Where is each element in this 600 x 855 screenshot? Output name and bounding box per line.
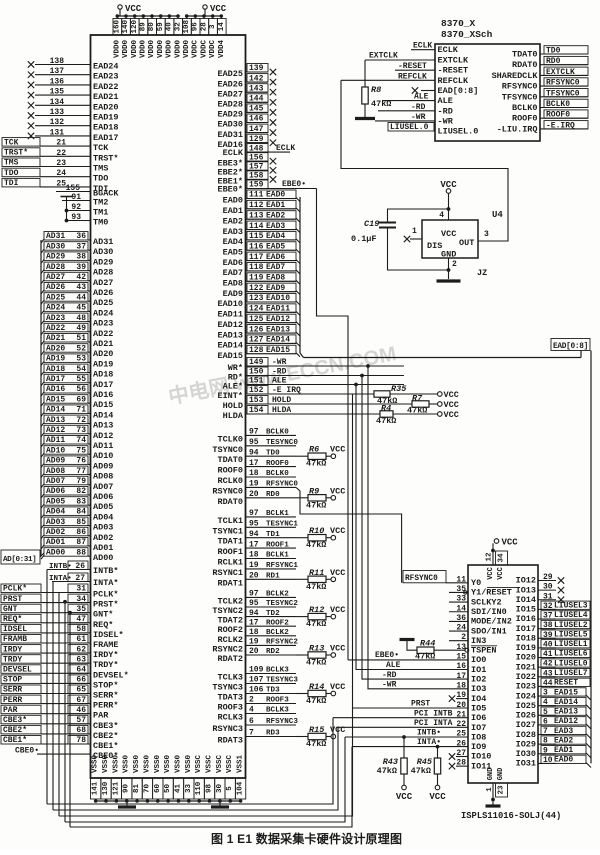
U3 left pin 13 TSPEN	[456, 643, 496, 656]
svg-text:-LIU.IRQ: -LIU.IRQ	[497, 124, 538, 134]
wire bottom run to ISP pin INTA*	[70, 747, 352, 827]
svg-text:EAD14: EAD14	[266, 336, 290, 345]
svg-text:TD0: TD0	[266, 449, 280, 457]
bus EAD vertical at right of U1	[299, 197, 301, 353]
svg-text:47kΩ: 47kΩ	[306, 658, 326, 668]
svg-text:EAD4: EAD4	[266, 232, 285, 241]
svg-text:160: 160	[113, 19, 121, 33]
svg-text:AD01: AD01	[46, 538, 65, 547]
svg-text:ROOF1: ROOF1	[217, 547, 243, 557]
svg-text:LIUSEL5: LIUSEL5	[554, 630, 588, 639]
svg-text:Y0: Y0	[471, 578, 481, 588]
svg-text:PCLK*: PCLK*	[93, 590, 119, 600]
svg-text:51: 51	[76, 334, 86, 343]
U1 left pin 24 TDO with net label TDO	[2, 168, 108, 184]
svg-text:4: 4	[439, 211, 444, 220]
svg-text:TMS: TMS	[4, 159, 19, 168]
svg-text:R9: R9	[309, 486, 319, 496]
svg-text:140: 140	[122, 19, 130, 33]
svg-text:FRAMB: FRAMB	[3, 635, 27, 644]
wire R14 to VCC	[326, 693, 331, 695]
svg-text:AD[0:31]: AD[0:31]	[3, 556, 36, 564]
svg-text:24: 24	[56, 169, 66, 178]
svg-text:R11: R11	[309, 568, 324, 578]
svg-text:TDI: TDI	[4, 179, 19, 188]
svg-text:45: 45	[76, 304, 86, 313]
svg-text:47kΩ: 47kΩ	[306, 582, 326, 592]
svg-text:IO12: IO12	[516, 576, 536, 586]
U3 left pin 22 IO7	[456, 720, 486, 733]
svg-text:110: 110	[195, 781, 203, 795]
svg-text:GNT: GNT	[3, 605, 18, 614]
U1 right pin 113 EAD2	[223, 211, 300, 227]
svg-text:EAD[0:8]: EAD[0:8]	[553, 343, 588, 351]
svg-text:AD25: AD25	[93, 298, 113, 308]
svg-text:2: 2	[249, 696, 254, 705]
net label PRST at U3 IO5 with wire	[353, 700, 469, 709]
svg-text:81: 81	[133, 784, 141, 794]
svg-text:6: 6	[249, 717, 254, 726]
U1 left pin 138 EAD24	[28, 57, 119, 72]
svg-text:7: 7	[249, 729, 254, 738]
svg-text:EAD12: EAD12	[554, 717, 578, 726]
svg-text:VSS0: VSS0	[143, 755, 151, 774]
svg-text:EAD13: EAD13	[266, 325, 290, 334]
svg-text:18: 18	[249, 551, 259, 560]
svg-text:C19: C19	[364, 219, 379, 229]
wire R35 to VCC	[390, 393, 438, 395]
svg-text:OUT: OUT	[459, 238, 474, 248]
svg-text:67: 67	[76, 696, 86, 705]
svg-text:BCLK3: BCLK3	[266, 667, 289, 675]
svg-text:149: 149	[249, 358, 264, 367]
svg-text:DEVSEL: DEVSEL	[3, 666, 32, 675]
svg-text:AD00: AD00	[93, 553, 113, 563]
wire R14 net	[296, 693, 308, 695]
svg-text:60: 60	[154, 784, 162, 794]
svg-text:151: 151	[249, 377, 264, 386]
svg-text:AD20: AD20	[93, 349, 113, 359]
U1 left pin 46 PAR with net label PAR	[1, 705, 109, 721]
svg-text:124: 124	[249, 305, 264, 314]
svg-text:120: 120	[131, 19, 139, 33]
svg-text:VCC: VCC	[396, 792, 413, 802]
svg-text:EINT*: EINT*	[217, 391, 243, 401]
power symbol VCC at U4	[439, 180, 457, 220]
svg-text:IO19: IO19	[516, 643, 536, 653]
U1 right pin 143 EAD27	[217, 84, 276, 100]
svg-text:IO14: IO14	[516, 595, 536, 605]
U2 pin label REFCLK with wire	[341, 72, 435, 81]
wire INTB* vertical to bottom	[46, 570, 48, 805]
wire PCLK vertical to bottom	[58, 593, 60, 817]
U1 left pin 73 AD12	[41, 425, 113, 441]
svg-text:EAD[0:8]: EAD[0:8]	[438, 86, 479, 96]
svg-text:TD2: TD2	[266, 610, 280, 618]
wire EBE0* to right with label	[268, 180, 317, 189]
resistor R6	[306, 445, 326, 469]
svg-text:142: 142	[249, 74, 264, 83]
svg-text:EAD5: EAD5	[223, 247, 243, 257]
svg-text:ALE: ALE	[386, 661, 401, 670]
svg-text:IO17: IO17	[516, 624, 536, 634]
U1 left pin 67 PERR* with net label PERR	[1, 695, 119, 711]
U3 right pin 29 IO12 no-connect	[516, 573, 565, 586]
svg-text:8370_XSch: 8370_XSch	[441, 29, 493, 40]
wire R6 to VCC	[326, 455, 331, 457]
svg-text:EAD1: EAD1	[554, 746, 573, 755]
svg-text:-E.IRQ: -E.IRQ	[546, 121, 575, 130]
svg-text:TDAT1: TDAT1	[217, 537, 243, 547]
svg-text:TRST*: TRST*	[93, 153, 119, 163]
wire ALE vertical to ISP	[356, 385, 468, 670]
U3 right pin 31 IO14 no-connect	[516, 592, 565, 605]
IC U2 pin ECLK	[438, 45, 459, 55]
svg-text:95: 95	[249, 438, 259, 447]
svg-text:36: 36	[76, 232, 86, 241]
svg-text:AD15: AD15	[46, 395, 65, 404]
svg-text:R4: R4	[381, 404, 391, 414]
svg-text:135: 135	[50, 88, 65, 97]
svg-text:47kΩ: 47kΩ	[306, 540, 326, 550]
U3 top pin 34 VCC	[496, 551, 508, 565]
svg-text:AD03: AD03	[93, 523, 113, 533]
svg-text:IO23: IO23	[516, 682, 536, 692]
svg-text:ECLK: ECLK	[276, 144, 295, 153]
wire R10 net	[296, 537, 308, 539]
svg-text:118: 118	[249, 263, 264, 272]
ground symbol below U3	[486, 797, 501, 806]
svg-text:RSYNC3: RSYNC3	[212, 724, 243, 734]
svg-text:38: 38	[76, 253, 86, 262]
svg-text:PAR: PAR	[3, 706, 18, 715]
svg-text:TESYNC3: TESYNC3	[266, 677, 298, 685]
wire R9 to VCC	[326, 497, 331, 499]
ground rail under U1	[94, 799, 243, 803]
U1 left pin 92 TM1	[67, 203, 109, 218]
svg-text:LIUSEL.0: LIUSEL.0	[390, 123, 429, 132]
U3 left pin 28 IO11	[449, 759, 492, 772]
svg-text:83: 83	[76, 497, 86, 506]
svg-text:AD09: AD09	[93, 461, 113, 471]
wire R9 net	[296, 497, 308, 499]
svg-text:47kΩ: 47kΩ	[306, 739, 326, 749]
svg-text:RCLK0: RCLK0	[217, 476, 243, 486]
svg-text:AD07: AD07	[93, 482, 113, 492]
U1 right pin 156 EBE3*	[217, 153, 276, 169]
svg-text:AD29: AD29	[46, 253, 65, 262]
U3 right pin 43 IO22 net LIUSEL7	[516, 669, 590, 683]
svg-text:REQ*: REQ*	[3, 615, 22, 624]
svg-text:PCLK*: PCLK*	[3, 585, 27, 594]
svg-text:AD04: AD04	[93, 512, 113, 522]
svg-text:82: 82	[76, 487, 86, 496]
svg-text:R44: R44	[420, 639, 435, 649]
U1 left pin 52 AD20	[41, 344, 113, 360]
svg-text:EAD15: EAD15	[554, 688, 578, 697]
U1 left pin 134 EAD20	[28, 98, 119, 113]
svg-text:AD11: AD11	[93, 441, 113, 451]
svg-text:EAD26: EAD26	[217, 79, 243, 89]
svg-text:PERR: PERR	[3, 696, 22, 705]
svg-text:77: 77	[76, 467, 86, 476]
svg-text:59: 59	[157, 22, 165, 32]
svg-text:116: 116	[249, 242, 264, 251]
svg-text:EAD7: EAD7	[223, 268, 243, 278]
svg-text:CBE3*: CBE3*	[93, 721, 119, 731]
power symbol VCC at R10	[330, 526, 345, 540]
svg-text:EAD10: EAD10	[266, 294, 290, 303]
svg-text:34: 34	[76, 595, 86, 604]
U1 left pin 42 AD27	[41, 272, 113, 288]
wire C19 bottom to GND	[388, 228, 451, 272]
svg-text:AD05: AD05	[46, 497, 65, 506]
U1 right pin 112 EAD1	[223, 200, 300, 216]
U1 right pin 122 EAD9	[223, 283, 300, 299]
svg-text:GNT*: GNT*	[93, 610, 113, 620]
svg-text:138: 138	[50, 57, 65, 66]
U1 left pin 57 CBE3* with net label CBE3*	[1, 715, 119, 731]
svg-text:19: 19	[249, 480, 259, 489]
wire PRST vertical to bottom	[63, 600, 67, 822]
svg-text:IO30: IO30	[516, 749, 536, 759]
svg-text:156: 156	[249, 153, 264, 162]
IC U2 pin REFCLK	[438, 76, 470, 86]
U1 left pin 69 AD15	[41, 395, 113, 411]
svg-text:39: 39	[76, 263, 86, 272]
svg-text:AD16: AD16	[93, 390, 113, 400]
svg-text:AD08: AD08	[46, 467, 65, 476]
U1 left pin 137 EAD23	[28, 67, 119, 82]
svg-text:SDO/IN1: SDO/IN1	[471, 626, 507, 636]
svg-text:84: 84	[76, 508, 86, 517]
U2 pin label ALE with wire	[382, 93, 435, 102]
svg-text:IO15: IO15	[516, 605, 536, 615]
svg-text:40: 40	[166, 22, 174, 32]
svg-text:VCC: VCC	[330, 725, 345, 735]
svg-text:AD30: AD30	[93, 247, 113, 257]
svg-text:ROOF2: ROOF2	[266, 619, 289, 627]
U1 left pin 86 AD02	[41, 527, 113, 543]
U3 right pin 30 IO13 no-connect	[516, 583, 565, 596]
bus EAD vertical right edge	[590, 351, 592, 764]
svg-text:AD06: AD06	[46, 487, 65, 496]
svg-text:ECLK: ECLK	[413, 42, 432, 51]
wire HOLD net to resistor	[268, 403, 412, 405]
bus AD vertical line	[40, 240, 42, 557]
wire bottom run to ISP pin PCI INTB	[47, 718, 333, 804]
U1 right pin 17 ROOF0 net ROOF0	[217, 459, 296, 476]
svg-text:69: 69	[76, 395, 86, 404]
svg-text:VSS0: VSS0	[133, 755, 141, 774]
U1 left pin 77 AD08	[41, 466, 113, 482]
svg-text:TSYNC1: TSYNC1	[212, 526, 243, 536]
svg-text:EAD2: EAD2	[554, 736, 573, 745]
svg-text:18: 18	[456, 681, 466, 690]
wire INTA* vertical to bottom	[52, 582, 54, 811]
U1 left pin 62 IRDY* with net label IRDY	[1, 645, 119, 661]
U1 right pin 111 EAD0	[223, 190, 300, 206]
svg-text:126: 126	[249, 325, 264, 334]
svg-text:VDD0: VDD0	[166, 40, 174, 59]
VCC rail top-left	[116, 14, 180, 18]
U3 top VCC pin names	[487, 567, 505, 580]
svg-text:49: 49	[76, 324, 86, 333]
U2 pin -LIU.IRQ net -E.IRQ	[497, 121, 588, 135]
wire R11 net	[296, 578, 308, 580]
svg-text:TD1: TD1	[266, 531, 280, 539]
svg-text:EAD14: EAD14	[554, 698, 578, 707]
U2 pin label LIUSEL.0 boxed	[388, 123, 435, 133]
svg-text:EAD14: EAD14	[217, 341, 243, 351]
svg-text:VCC: VCC	[497, 567, 505, 580]
IC U2 pin -RESET	[438, 66, 469, 76]
U1 right pin 20 RDAT0 net RD0	[217, 490, 296, 507]
svg-text:EAD2: EAD2	[223, 216, 243, 226]
svg-text:CBE1*: CBE1*	[93, 741, 119, 751]
U1 left pin 37 AD30	[41, 242, 113, 258]
svg-text:AD28: AD28	[46, 263, 65, 272]
svg-text:AD02: AD02	[46, 528, 65, 537]
U1 right pin 119 EAD8	[223, 273, 300, 289]
U3 left pin 16 IO1	[456, 662, 486, 675]
svg-text:EAD0: EAD0	[223, 196, 243, 206]
U1 left pin 71 AD14	[41, 405, 113, 421]
svg-text:AD19: AD19	[46, 355, 65, 364]
svg-text:IO18: IO18	[516, 633, 536, 643]
svg-text:AD13: AD13	[93, 421, 113, 431]
U3 left pin 27 IO10	[449, 749, 492, 762]
resistor R15	[306, 725, 326, 749]
svg-text:PCI INTA: PCI INTA	[414, 719, 453, 728]
svg-text:112: 112	[249, 201, 264, 210]
svg-text:EAD19: EAD19	[93, 113, 119, 123]
wire R15 net	[296, 736, 308, 738]
U2 pin SHAREDCLK net EXTCLK	[492, 67, 588, 81]
svg-text:62: 62	[76, 645, 86, 654]
U1 right pin 95 TSYNC2 net TESYNC2	[212, 599, 298, 616]
svg-text:VDDC: VDDC	[192, 40, 200, 59]
U3 left pin 17 IO2	[456, 672, 486, 685]
svg-text:EAD2: EAD2	[266, 211, 285, 220]
U1 left pin 49 AD22	[41, 323, 113, 339]
svg-text:RCLK3: RCLK3	[217, 713, 243, 723]
svg-text:TDAT0: TDAT0	[512, 50, 538, 60]
svg-text:EAD9: EAD9	[266, 284, 285, 293]
U1 right pin 7 RDAT3 net RD3	[217, 729, 296, 746]
U1 right pin 114 EAD3	[223, 221, 300, 237]
svg-text:97: 97	[249, 590, 259, 599]
U1 left pin 43 AD26	[41, 283, 113, 299]
svg-text:VCC: VCC	[440, 180, 457, 190]
svg-text:47kΩ: 47kΩ	[411, 766, 431, 776]
U1 left pin 74 AD11	[41, 436, 113, 452]
svg-text:AD23: AD23	[46, 314, 65, 323]
svg-text:AD20: AD20	[46, 344, 65, 353]
U3 right pin 44 IO23 net RESET	[516, 678, 590, 692]
U1 left pin 38 AD29	[41, 252, 113, 268]
svg-text:AD25: AD25	[46, 293, 65, 302]
power symbol VCC at R13	[330, 644, 345, 658]
svg-text:EAD13: EAD13	[217, 330, 243, 340]
U3 left pin 14 SDI/IN0	[449, 604, 507, 617]
svg-text:EBE0•: EBE0•	[282, 180, 306, 189]
svg-text:CBE0•: CBE0•	[15, 746, 39, 755]
U1 left pin 26 INTB*	[47, 561, 119, 576]
svg-text:AD00: AD00	[46, 548, 65, 557]
U1 bottom ground pin names VSS	[92, 755, 245, 774]
svg-text:70: 70	[143, 784, 151, 794]
svg-text:1: 1	[412, 227, 417, 236]
svg-text:AD28: AD28	[93, 268, 113, 278]
svg-text:Y1/RESET: Y1/RESET	[471, 588, 512, 598]
svg-text:RDAT2: RDAT2	[217, 654, 243, 664]
svg-text:134: 134	[50, 98, 65, 107]
svg-text:EAD12: EAD12	[217, 320, 243, 330]
svg-text:BCLK1: BCLK1	[266, 510, 289, 518]
U1 right pin 123 EAD10	[217, 294, 300, 310]
svg-text:TM1: TM1	[93, 208, 108, 218]
U1 left pin 47 REQ* with net label REQ*	[1, 614, 113, 630]
U1 left pin 56 AD16	[41, 385, 113, 401]
svg-text:-RD: -RD	[382, 671, 397, 680]
svg-text:BCLK0: BCLK0	[266, 470, 289, 478]
svg-text:RD3: RD3	[266, 730, 280, 738]
svg-text:129: 129	[249, 135, 264, 144]
svg-text:28: 28	[200, 22, 208, 32]
U2 pin ROOF0 net ROOF0	[512, 110, 588, 124]
svg-text:AD22: AD22	[93, 329, 113, 339]
svg-text:23: 23	[56, 159, 66, 168]
U1 left pin 75 AD10	[41, 446, 113, 462]
svg-text:TSPEN: TSPEN	[471, 646, 497, 656]
svg-text:VCC: VCC	[330, 486, 345, 496]
U1 right pin 94 TDAT1 net TD1	[217, 530, 296, 547]
svg-text:IO2: IO2	[471, 675, 486, 685]
svg-text:157: 157	[249, 163, 264, 172]
svg-text:IO11: IO11	[471, 761, 491, 771]
U1 right pin 129 EAD16	[217, 134, 276, 150]
svg-text:EAD23: EAD23	[93, 72, 119, 82]
U1 left pin 87 AD01	[41, 538, 113, 554]
svg-text:57: 57	[76, 716, 86, 725]
U1 right pin 142 EAD26	[217, 74, 276, 90]
svg-text:EXTCLK: EXTCLK	[438, 56, 470, 66]
svg-text:EAD3: EAD3	[266, 222, 285, 231]
svg-text:EAD29: EAD29	[217, 110, 243, 120]
svg-text:MODE/IN2: MODE/IN2	[471, 617, 512, 627]
U1 left pin 21 TCK with net label TCK	[2, 138, 109, 154]
svg-text:VSSC: VSSC	[216, 755, 224, 774]
svg-text:125: 125	[249, 315, 264, 324]
svg-text:121: 121	[112, 781, 120, 795]
svg-text:104: 104	[237, 781, 245, 795]
U1 right pin 18 RCLK1 net BCLK1	[217, 551, 296, 568]
svg-text:IO13: IO13	[516, 585, 536, 595]
svg-text:LIUSEL6: LIUSEL6	[554, 650, 588, 659]
resistor R8 pull-down on EXTCLK	[362, 60, 392, 117]
svg-text:19: 19	[249, 561, 259, 570]
svg-text:TFSYNC0: TFSYNC0	[502, 92, 538, 102]
U1 left pin 68 CBE2* with net label CBE2*	[1, 725, 119, 741]
svg-text:SDI/IN0: SDI/IN0	[471, 607, 507, 617]
wire ALE net	[268, 383, 404, 387]
net label EBE0* at U3 IO0	[348, 651, 468, 660]
U4 pin 3 OUT wire to REFCLK	[341, 80, 508, 241]
resistor R35	[374, 384, 406, 406]
svg-text:37: 37	[76, 242, 86, 251]
svg-text:143: 143	[249, 84, 264, 93]
